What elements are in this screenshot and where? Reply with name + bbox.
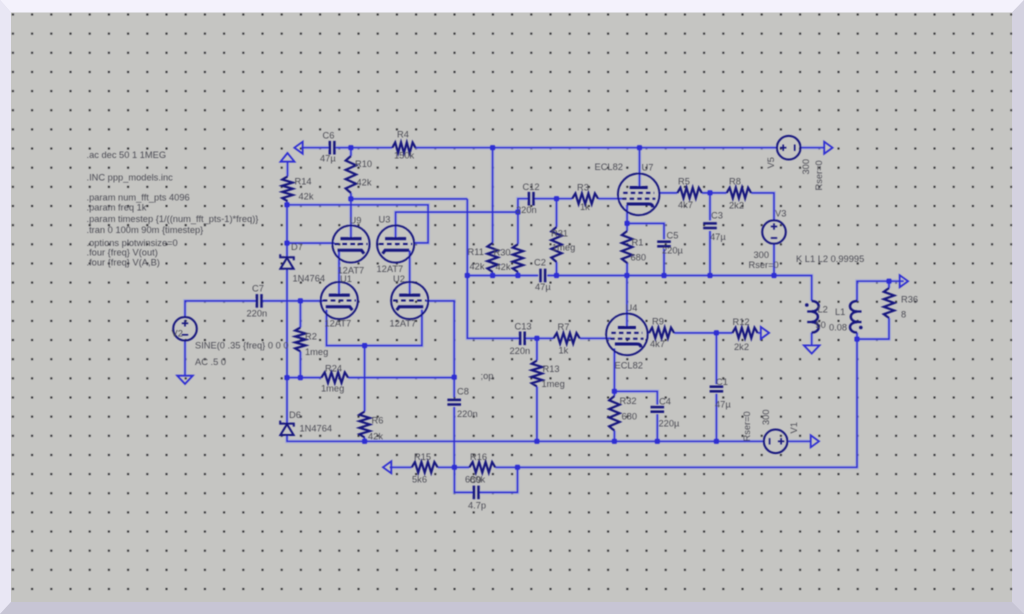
zener D6	[280, 421, 294, 427]
svg-text:1N4764: 1N4764	[293, 274, 326, 284]
junction R10 bottom	[348, 196, 353, 201]
resistor R5	[677, 188, 702, 198]
svg-text:R15: R15	[414, 452, 431, 462]
wire U4 screen to R9	[648, 332, 650, 334]
svg-text:5k6: 5k6	[412, 475, 427, 485]
junction C3 bottom	[707, 273, 712, 278]
svg-text:.tran 0 100m 90m {timestep}: .tran 0 100m 90m {timestep}	[87, 225, 204, 235]
svg-text:2k2: 2k2	[734, 342, 749, 352]
resistor R1	[622, 231, 632, 263]
svg-text:R31: R31	[551, 229, 568, 239]
wire x287 zener gap	[286, 269, 288, 378]
svg-text:.param freq 1k: .param freq 1k	[87, 202, 147, 212]
svg-text:R13: R13	[543, 364, 560, 374]
svg-text:C1: C1	[716, 377, 728, 387]
junction C6-R10	[348, 145, 353, 150]
svg-text:42k: 42k	[496, 262, 511, 272]
junction R2 bottom	[298, 375, 303, 380]
wire C3 drop	[709, 193, 711, 221]
junction D7-bias	[284, 375, 289, 380]
wire U7 plate lead	[639, 148, 641, 189]
svg-text:42k: 42k	[299, 192, 314, 202]
wire C1 drop	[715, 333, 717, 384]
wire U9 grid	[287, 242, 335, 244]
capacitor C6	[329, 141, 332, 155]
pentode U4 ECL82	[606, 314, 648, 356]
voltage source V3	[762, 220, 786, 244]
svg-text:220n: 220n	[510, 346, 531, 356]
wire U7 cath to C5	[627, 205, 664, 239]
svg-text:Rser=0: Rser=0	[814, 160, 824, 190]
wire R3 to U7 grid	[598, 198, 622, 200]
junction V3 bottom	[771, 273, 776, 278]
resistor R8	[727, 188, 752, 198]
svg-text:C7: C7	[252, 284, 264, 294]
triode U2 12AT7	[391, 282, 428, 319]
junction U7 cathode	[625, 221, 630, 226]
svg-text:R10: R10	[355, 159, 372, 169]
pentode U7 ECL82	[618, 174, 660, 216]
svg-text:R32: R32	[620, 396, 637, 406]
resistor R12	[732, 328, 757, 338]
wire R11 bottom lead	[492, 272, 494, 276]
svg-text:D6: D6	[289, 410, 301, 420]
wire L1 top	[857, 281, 904, 301]
wire R9 to R12	[674, 332, 732, 334]
wire V1 to arrow	[788, 440, 810, 442]
junction cathode-R6	[362, 343, 367, 348]
wire grid rail	[351, 198, 467, 200]
svg-text:R30: R30	[494, 248, 511, 258]
svg-text:R2: R2	[305, 332, 317, 342]
svg-text:C6: C6	[323, 131, 335, 141]
svg-text:1k: 1k	[559, 346, 569, 356]
wire C12 left corner	[518, 199, 529, 212]
svg-text:150k: 150k	[394, 151, 415, 161]
svg-text:4k7: 4k7	[678, 200, 693, 210]
port flag B-plus	[281, 153, 295, 162]
wire bias row right	[348, 377, 454, 379]
wire R14 to U3 grid	[287, 205, 428, 243]
junction R6 bottom	[362, 439, 367, 444]
svg-text:1meg: 1meg	[552, 243, 575, 253]
frame bevel top band	[0, 0, 1024, 13]
wire R1 bottom	[626, 263, 628, 276]
svg-text:Rser=0: Rser=0	[749, 260, 779, 270]
svg-text:C8: C8	[457, 387, 469, 397]
port arrow feedback	[383, 461, 391, 473]
wire top rail left	[302, 147, 329, 149]
svg-text:V2: V2	[172, 329, 183, 339]
wire C13 to R7	[525, 337, 554, 339]
wire R2 bottom lead	[299, 351, 301, 377]
svg-text:;op: ;op	[481, 371, 494, 381]
svg-text:C13: C13	[515, 322, 532, 332]
wire C7 to U1 grid	[262, 300, 323, 302]
svg-text:R5: R5	[678, 177, 690, 187]
svg-text:1N4764: 1N4764	[300, 424, 333, 434]
svg-text:L2: L2	[818, 305, 828, 315]
wire L2 ground lead	[811, 333, 813, 346]
resistor R2	[295, 328, 305, 352]
junction R11 bottom	[490, 273, 495, 278]
inductor L2	[812, 301, 819, 333]
svg-text:50: 50	[816, 320, 826, 330]
resistor R3	[572, 194, 598, 204]
wire R36 top lead	[888, 281, 890, 288]
wire R7 to U4 grid	[580, 337, 612, 339]
resistor R13	[532, 361, 542, 387]
svg-text:V1: V1	[789, 422, 799, 433]
svg-text:U9: U9	[350, 216, 362, 226]
wire V3 to mid rail	[773, 244, 775, 276]
svg-text:220n: 220n	[457, 409, 478, 419]
frame bevel right band	[1012, 0, 1024, 614]
svg-text:Rser=0: Rser=0	[742, 411, 752, 441]
capacitor C9	[473, 486, 476, 500]
resistor R10	[346, 156, 356, 193]
wire R13 top lead	[536, 338, 538, 360]
wire U7 screen to R5	[660, 192, 678, 194]
svg-text:300: 300	[801, 159, 811, 175]
wire V2 ground lead	[184, 341, 186, 376]
ground V2	[177, 376, 193, 384]
svg-text:4k7: 4k7	[650, 339, 665, 349]
capacitor C4	[651, 406, 665, 409]
junction U3 plate-C12	[515, 210, 520, 215]
junction C5 bottom	[661, 273, 666, 278]
svg-text:R24: R24	[325, 364, 342, 374]
svg-text:SINE(0 .35 {freq} 0 0 0: SINE(0 .35 {freq} 0 0 0	[195, 341, 289, 351]
svg-text:R16: R16	[470, 452, 487, 462]
resistor R11	[487, 243, 497, 272]
resistor R15	[412, 462, 438, 472]
wire cathode join	[327, 310, 422, 346]
junction R32 bottom	[612, 439, 617, 444]
zener D7	[280, 254, 294, 260]
triode U9 12AT7	[332, 225, 369, 262]
port arrow node A	[761, 327, 769, 339]
junction R16-C9	[515, 465, 520, 470]
wire glow layer (decorative)	[185, 148, 904, 493]
wire bottom rail	[287, 435, 763, 441]
triode U1 12AT7	[321, 282, 358, 319]
wire top rail main	[416, 147, 777, 149]
junction L1 bottom	[854, 337, 859, 342]
wire R10 top lead	[350, 148, 352, 156]
resistor R36	[884, 288, 894, 318]
wire R12 to arrow	[758, 332, 761, 334]
junction C4 bottom	[655, 439, 660, 444]
resistor R14	[282, 176, 292, 201]
wire U9 cath to U1 plate	[338, 251, 340, 296]
wire R2 top lead	[299, 301, 301, 328]
svg-text:AC .5 0: AC .5 0	[195, 357, 226, 367]
svg-text:R1: R1	[632, 238, 644, 248]
svg-text:220µ: 220µ	[662, 246, 684, 256]
wire top rail C6-R4	[336, 147, 393, 149]
svg-text:12AT7: 12AT7	[377, 264, 404, 274]
wire C12 to R3	[534, 198, 573, 200]
svg-text:U1: U1	[340, 274, 352, 284]
resistor R24	[321, 372, 348, 382]
wire R30 bottom lead	[517, 272, 519, 276]
svg-text:ECL82: ECL82	[615, 361, 643, 371]
inductor L1	[850, 301, 857, 333]
capacitor C12	[528, 192, 531, 206]
junction R11 top	[490, 145, 495, 150]
svg-text:12AT7: 12AT7	[325, 319, 352, 329]
resistor R6	[359, 412, 369, 438]
junction mid rail A	[465, 273, 470, 278]
svg-text:U3: U3	[379, 215, 391, 225]
resistor R9	[649, 328, 674, 338]
svg-text:R36: R36	[901, 295, 918, 305]
junction R2 top	[298, 298, 303, 303]
voltage source V5	[777, 136, 801, 160]
wire R6 bottom lead	[364, 438, 366, 442]
wire top rail V5-arrow	[801, 147, 825, 149]
wire R5 to R8	[702, 192, 727, 194]
wire R14 stem	[287, 162, 289, 177]
junction R9-R12-C1	[714, 330, 719, 335]
svg-text:V3: V3	[775, 209, 786, 219]
wire bias row left	[287, 377, 321, 379]
wire R16 to L1 bottom	[495, 339, 857, 467]
junction C8-R15-R16	[452, 465, 457, 470]
wire R30 top lead	[517, 212, 519, 244]
wire mid rail right	[547, 276, 811, 301]
wire R32 top lead	[613, 391, 615, 396]
junction R31 bottom	[554, 273, 559, 278]
junction R5-R8-C3	[707, 190, 712, 195]
svg-text:.four {freq} V(A,B): .four {freq} V(A,B)	[87, 257, 160, 267]
wire U3 plate to C12	[396, 212, 518, 238]
svg-text:C9: C9	[470, 475, 482, 485]
wire L1 bottom lead	[856, 333, 858, 340]
port arrow V1 plus	[811, 435, 819, 447]
wire R31 bottom lead	[556, 262, 558, 276]
wire R36 bottom	[857, 318, 889, 339]
junction U2 grid-bias	[452, 375, 457, 380]
svg-text:1meg: 1meg	[305, 347, 328, 357]
capacitor C8	[447, 399, 461, 402]
capacitor C13	[519, 332, 522, 346]
resistor R31	[551, 227, 561, 262]
capacitor C7	[256, 294, 259, 308]
svg-text:300: 300	[761, 409, 771, 425]
svg-text:47µ: 47µ	[535, 282, 551, 292]
wire U4 plate	[626, 276, 628, 328]
junction U7 plate	[637, 145, 642, 150]
svg-text:R8: R8	[729, 177, 741, 187]
svg-text:12AT7: 12AT7	[390, 319, 417, 329]
svg-text:R14: R14	[295, 177, 312, 187]
junction U4 cathode	[612, 389, 617, 394]
svg-text:R9: R9	[652, 317, 664, 327]
svg-text:C3: C3	[711, 211, 723, 221]
svg-text:47µ: 47µ	[715, 400, 731, 410]
svg-text:D7: D7	[291, 242, 303, 252]
svg-text:680: 680	[631, 253, 647, 263]
wire C8 bottom lead	[453, 407, 455, 467]
wire R32 bottom lead	[613, 431, 615, 442]
junction R1-U4 plate	[624, 273, 629, 278]
wire U3 cath to U2 plate	[409, 251, 411, 296]
junction R36 top	[886, 279, 891, 284]
wire R10 bottom lead	[350, 193, 352, 199]
svg-text:220n: 220n	[247, 309, 268, 319]
wire R15 to R16	[438, 466, 470, 468]
frame bevel left band	[0, 0, 11, 614]
svg-text:R4: R4	[397, 130, 409, 140]
wire R13 bottom	[536, 387, 538, 442]
wire C1 to bottom rail	[715, 394, 717, 442]
capacitor C1	[710, 385, 724, 388]
svg-text:42k: 42k	[357, 178, 372, 188]
svg-text:.INC ppp_models.inc: .INC ppp_models.inc	[87, 173, 174, 183]
junction C1 bottom	[714, 439, 719, 444]
svg-text:U2: U2	[393, 274, 405, 284]
wire R14 bottom	[286, 201, 288, 205]
svg-text:C5: C5	[667, 231, 679, 241]
svg-text:R6: R6	[372, 416, 384, 426]
wire V2 to C7	[185, 301, 257, 317]
capacitor C2	[539, 269, 542, 283]
svg-text:47µ: 47µ	[710, 232, 726, 242]
svg-text:.options plotwinsize=0: .options plotwinsize=0	[87, 238, 178, 248]
svg-text:42k: 42k	[368, 432, 383, 442]
svg-text:42k: 42k	[470, 262, 485, 272]
svg-text:R7: R7	[558, 322, 570, 332]
svg-text:U4: U4	[626, 303, 638, 313]
triode U3 12AT7	[377, 225, 414, 262]
wire U9 plate lead	[350, 199, 352, 239]
svg-text:.four {freq} V(out): .four {freq} V(out)	[87, 247, 158, 257]
svg-text:V5: V5	[766, 157, 776, 168]
junction C12-R3-R31	[554, 196, 559, 201]
svg-text:4.7p: 4.7p	[468, 501, 486, 511]
svg-text:47µ: 47µ	[320, 154, 336, 164]
wire U2 grid down	[426, 301, 454, 377]
wire R31 top lead	[556, 199, 558, 227]
ground L2	[804, 345, 820, 353]
svg-text:ECL82: ECL82	[595, 162, 623, 172]
wire C5 to mid rail	[663, 249, 665, 276]
wire x287 mid	[286, 205, 288, 257]
wire U4 cath join	[614, 349, 657, 405]
resistor R16	[469, 462, 495, 472]
wire cath to R6	[364, 346, 366, 412]
wire fb arrow to R15	[390, 466, 412, 468]
resistor R32	[609, 396, 619, 431]
wire C4 to bottom rail	[656, 414, 658, 441]
svg-text:680: 680	[622, 412, 638, 422]
voltage source V1	[764, 430, 788, 454]
svg-text:R11: R11	[468, 247, 484, 257]
svg-text:2k2: 2k2	[729, 201, 744, 211]
svg-text:U7: U7	[642, 163, 654, 173]
wire R11 top lead	[492, 148, 494, 243]
capacitor C3	[703, 222, 717, 225]
svg-text:8: 8	[901, 310, 906, 320]
wire R8 to V3	[751, 193, 774, 220]
frame bevel bottom band	[0, 602, 1024, 614]
svg-text:.param num_fft_pts 4096: .param num_fft_pts 4096	[87, 193, 190, 203]
svg-text:.param timestep {1/((num_fft_p: .param timestep {1/((num_fft_pts-1)*freq…	[87, 214, 259, 224]
port arrow out	[900, 275, 908, 287]
svg-text:R3: R3	[577, 183, 589, 193]
wire x287 lower	[286, 378, 288, 424]
resistor R7	[554, 333, 580, 343]
svg-text:C12: C12	[523, 182, 540, 192]
svg-text:1meg: 1meg	[321, 384, 344, 394]
svg-text:1k: 1k	[580, 202, 590, 212]
junction R14 bottom	[284, 202, 289, 207]
port arrow V5 plus	[824, 142, 832, 154]
voltage source V2	[173, 317, 197, 341]
svg-text:0.08: 0.08	[829, 323, 847, 333]
junction R30 bottom	[515, 273, 520, 278]
resistor R30	[513, 244, 523, 272]
wire C9 loop	[454, 467, 474, 492]
wire R1 leads	[626, 223, 628, 231]
svg-text:.ac dec 50 1 1MEG: .ac dec 50 1 1MEG	[87, 150, 167, 160]
junction R13 bottom	[534, 439, 539, 444]
svg-text:L1: L1	[835, 307, 845, 317]
junction U9 grid	[284, 241, 289, 246]
resistor R4	[392, 143, 415, 153]
svg-text:C2: C2	[534, 258, 546, 268]
wire mid rail left	[467, 275, 538, 277]
wire C9 loop right	[479, 467, 518, 492]
svg-text:220n: 220n	[516, 205, 537, 215]
svg-text:K L1 L2 0.99995: K L1 L2 0.99995	[796, 254, 864, 264]
svg-text:C4: C4	[659, 397, 671, 407]
wire C3 to mid rail	[709, 231, 711, 276]
junction C13-R13	[534, 336, 539, 341]
capacitor C5	[657, 240, 671, 243]
svg-text:220µ: 220µ	[659, 419, 681, 429]
wire A vertical	[467, 199, 520, 338]
svg-text:300: 300	[754, 250, 770, 260]
wire C8 top lead	[453, 377, 455, 397]
svg-text:1meg: 1meg	[542, 379, 565, 389]
svg-text:R12: R12	[733, 317, 750, 327]
port arrow input	[294, 142, 302, 154]
